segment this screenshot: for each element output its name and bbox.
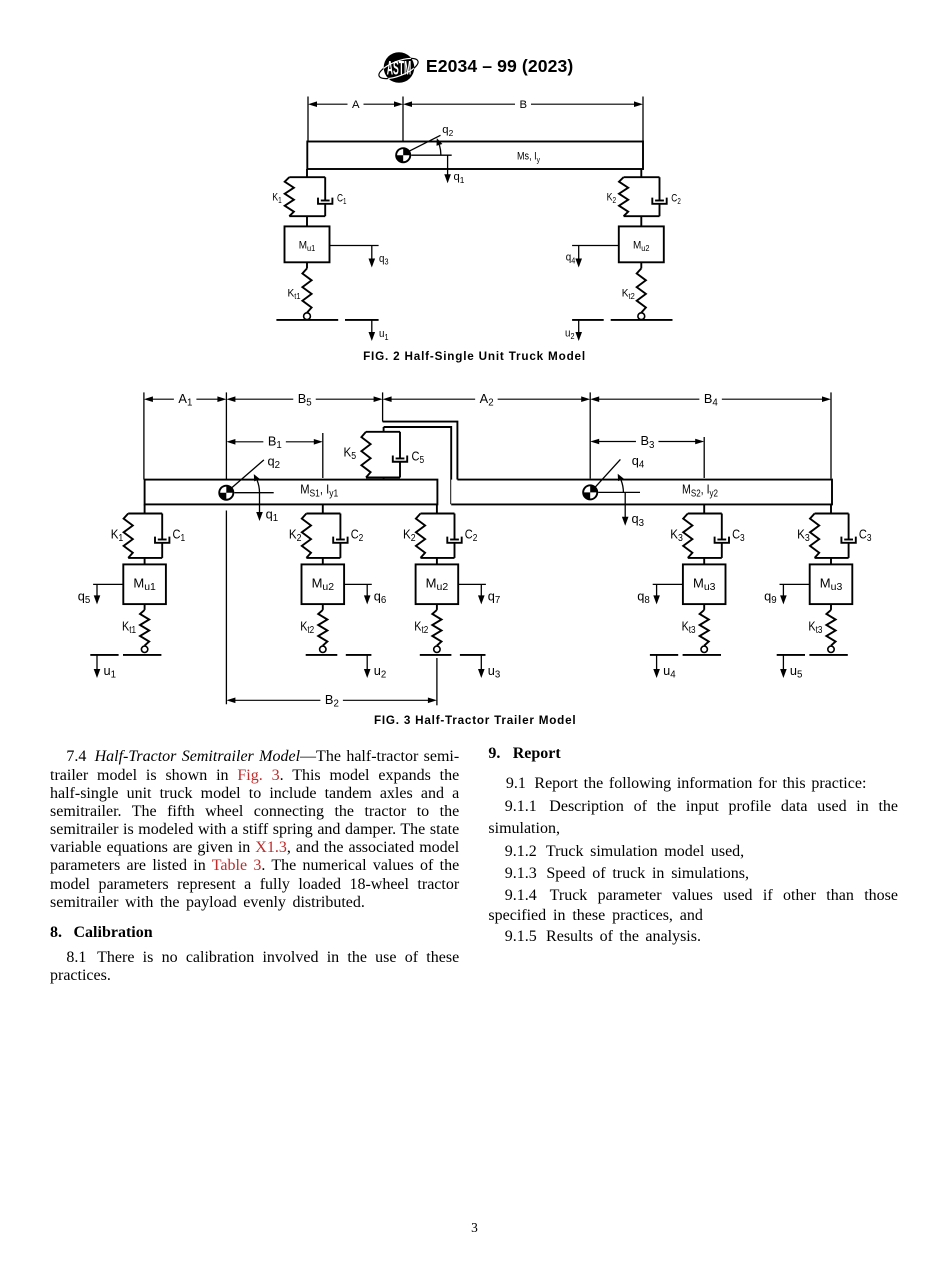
FIG2: dimension tick at right axle xyxy=(642,97,644,142)
road input line and arrow u5 xyxy=(777,655,805,678)
FIG3: dimension tick at fifth wheel xyxy=(382,392,384,421)
unsprung mass Mu3 (axle 4) xyxy=(683,564,726,604)
unsprung mass Mu1 xyxy=(285,226,330,262)
svg-text:q4: q4 xyxy=(632,453,645,471)
trailer sprung mass beam MS2 xyxy=(451,480,832,505)
suspension bracket axle 5 xyxy=(815,514,849,558)
tire spring Kt3 (axle 4) xyxy=(700,610,709,646)
FIG2: beam label Ms, Iy xyxy=(517,151,541,165)
svg-text:u3: u3 xyxy=(488,663,501,681)
svg-text:u2: u2 xyxy=(374,663,387,681)
damper C2 (axle 3) xyxy=(447,514,461,558)
svg-text:C1: C1 xyxy=(173,526,186,544)
FIG2: dimension A xyxy=(308,99,403,111)
road input line and arrow u1 xyxy=(345,320,379,341)
svg-text:Kt1: Kt1 xyxy=(288,287,301,301)
road input line and arrow u2 xyxy=(346,655,372,678)
trailer center of gravity symbol xyxy=(582,484,598,500)
svg-text:C3: C3 xyxy=(859,526,872,544)
spring K5 xyxy=(361,432,370,478)
spring label K3 xyxy=(797,526,810,544)
damper label C5 xyxy=(412,449,425,467)
displacement arrow q5 xyxy=(93,584,123,604)
svg-text:u1: u1 xyxy=(379,328,389,342)
tractor pitch q2 and bounce q1 arrows xyxy=(228,453,280,523)
unsprung mass Mu3 (axle 5) xyxy=(810,564,853,604)
svg-text:A2: A2 xyxy=(480,391,494,409)
FIG3: dimension B5 xyxy=(226,391,382,409)
displacement arrow q6 xyxy=(344,584,372,604)
damper label C3 xyxy=(859,526,872,544)
spring K3 (axle 5) xyxy=(810,514,819,558)
arrow label q9 xyxy=(764,588,777,606)
displacement arrow q3 xyxy=(330,246,379,268)
tire spring label Kt2 xyxy=(622,287,635,301)
wire: mass-to-tire-spring connector left axle xyxy=(306,262,308,268)
wire: beam-to-suspension connector axle 4 xyxy=(703,504,705,513)
mass label Mu2 xyxy=(633,239,650,253)
damper C3 (axle 5) xyxy=(841,514,855,558)
FIG2: pitch q2 and bounce q1 arrows at CG xyxy=(405,124,465,185)
arrow label q7 xyxy=(488,588,501,606)
mass label Mu1 xyxy=(299,239,316,253)
svg-text:Kt2: Kt2 xyxy=(300,619,314,637)
damper label C2 xyxy=(671,193,681,207)
svg-text:q7: q7 xyxy=(488,588,501,606)
displacement arrow q9 xyxy=(780,584,810,604)
beam label MS1, Iy1 xyxy=(300,482,338,500)
arrow label u1 xyxy=(104,663,117,681)
FIG. 2 caption xyxy=(0,351,950,363)
svg-text:K1: K1 xyxy=(272,191,282,205)
section heading 9. Report xyxy=(488,746,898,762)
section heading 8. Calibration xyxy=(50,925,459,941)
spring label K1 xyxy=(111,526,124,544)
trailer pitch q4 and bounce q3 arrows xyxy=(592,453,645,529)
arrow label q3 xyxy=(379,253,389,267)
svg-text:C2: C2 xyxy=(671,193,681,207)
FIG3: dimension tick at front axle / A1 xyxy=(143,392,145,479)
unsprung mass Mu2 xyxy=(619,226,664,262)
wire: link-to-fifth-wheel connector xyxy=(383,427,385,432)
suspension bracket axle 2 xyxy=(306,514,340,558)
fifth wheel link bar from trailer xyxy=(383,422,458,505)
wire: bracket-to-mass connector axle 1 xyxy=(144,558,146,565)
damper C1 (axle 1) xyxy=(155,514,169,558)
damper label C1 xyxy=(173,526,186,544)
mass label Mu2 xyxy=(426,576,449,594)
svg-text:Kt2: Kt2 xyxy=(414,619,428,637)
FIG3: dimension B2 tick at axle 3 xyxy=(436,658,438,705)
tire spring Kt2 (axle 2) xyxy=(318,610,327,646)
svg-text:C5: C5 xyxy=(412,449,425,467)
svg-text:C2: C2 xyxy=(351,526,364,544)
arrow label q5 xyxy=(78,588,91,606)
svg-text:K5: K5 xyxy=(344,445,357,463)
designation title E2034 - 99 (2023) xyxy=(426,58,573,76)
spring label K2 xyxy=(403,526,416,544)
svg-text:u4: u4 xyxy=(663,663,676,681)
FIG3: dimension B2 xyxy=(226,692,437,710)
svg-text:Kt3: Kt3 xyxy=(682,619,696,637)
svg-text:q2: q2 xyxy=(442,124,453,138)
spring label K2 xyxy=(289,526,302,544)
tractor center of gravity symbol xyxy=(218,485,234,501)
mass label Mu1 xyxy=(133,576,156,594)
arrow label u3 xyxy=(488,663,501,681)
suspension bracket axle 1 xyxy=(128,514,162,558)
ground line axle 3 xyxy=(420,654,452,656)
FIG3: dimension B3 tick at axle 4 xyxy=(703,437,705,478)
svg-text:B1: B1 xyxy=(268,434,282,452)
svg-text:Kt1: Kt1 xyxy=(122,619,136,637)
ground line axle 1 xyxy=(123,654,161,656)
road input line and arrow u1 xyxy=(90,655,118,678)
FIG2: dimension tick at CG xyxy=(402,97,404,142)
left column body text xyxy=(50,749,459,765)
mass label Mu3 xyxy=(693,576,716,594)
FIG3: dimension B3 xyxy=(590,433,704,451)
svg-text:q8: q8 xyxy=(637,588,650,606)
svg-text:u1: u1 xyxy=(104,663,117,681)
tire spring Kt1 (axle 1) xyxy=(140,610,149,646)
damper C2 (axle 2) xyxy=(333,514,347,558)
FIG2: dimension tick at left axle xyxy=(307,97,309,142)
svg-text:C3: C3 xyxy=(732,526,745,544)
FIG2: sprung mass beam Ms,Iy xyxy=(307,142,643,170)
svg-text:K2: K2 xyxy=(607,191,617,205)
wire: mass-to-tire-spring connector axle 2 xyxy=(322,604,324,610)
svg-text:A: A xyxy=(352,99,360,111)
suspension bracket left axle xyxy=(289,177,325,216)
ASTM logo xyxy=(370,43,430,93)
spring label K3 xyxy=(670,526,683,544)
tire spring Kt2 xyxy=(637,268,646,312)
page number xyxy=(0,1221,949,1234)
damper C5 xyxy=(393,432,407,478)
damper label C2 xyxy=(465,526,478,544)
wire: mass-to-tire-spring connector axle 5 xyxy=(830,604,832,610)
displacement arrow q8 xyxy=(653,584,683,604)
damper label C3 xyxy=(732,526,745,544)
FIG3: dimension B1 xyxy=(226,434,322,452)
displacement arrow q7 xyxy=(458,584,486,604)
unsprung mass Mu2 (axle 2) xyxy=(302,564,345,604)
svg-text:q1: q1 xyxy=(266,506,279,524)
svg-text:u2: u2 xyxy=(565,328,575,342)
beam label MS2, Iy2 xyxy=(682,482,718,500)
wire: beam-to-suspension connector axle 2 xyxy=(322,504,324,513)
svg-text:B2: B2 xyxy=(325,692,339,710)
mass label Mu2 xyxy=(312,576,335,594)
tire spring label Kt2 xyxy=(414,619,428,637)
svg-text:q3: q3 xyxy=(632,511,645,529)
wheel contact point left axle xyxy=(304,313,311,320)
wire: mass-to-tire-spring connector axle 4 xyxy=(703,604,705,610)
ground line axle 2 xyxy=(306,654,338,656)
damper C2 xyxy=(652,177,666,216)
svg-text:Kt3: Kt3 xyxy=(808,619,822,637)
svg-text:q4: q4 xyxy=(566,252,576,266)
svg-text:q5: q5 xyxy=(78,588,91,606)
arrow label u1 xyxy=(379,328,389,342)
FIG3: dimension B2 long tick at tractor CG xyxy=(225,511,227,705)
svg-text:K3: K3 xyxy=(797,526,810,544)
tractor sprung mass beam MS1 xyxy=(145,480,438,505)
svg-text:q2: q2 xyxy=(268,453,281,471)
road input line and arrow u2 xyxy=(572,320,604,341)
arrow label q8 xyxy=(637,588,650,606)
arrow label u2 xyxy=(374,663,387,681)
svg-text:Kt2: Kt2 xyxy=(622,287,635,301)
unsprung mass Mu1 (axle 1) xyxy=(123,564,166,604)
spring label K5 xyxy=(344,445,357,463)
ground line left axle xyxy=(276,319,338,321)
svg-text:B: B xyxy=(520,99,528,111)
wheel contact point axle 5 xyxy=(828,646,834,652)
wire: bracket-to-mass connector left axle xyxy=(306,216,308,226)
arrow label u4 xyxy=(663,663,676,681)
road input line and arrow u4 xyxy=(650,655,678,678)
wheel contact point axle 2 xyxy=(320,646,326,652)
arrow label q4 xyxy=(566,252,576,266)
wire: mass-to-tire-spring connector axle 1 xyxy=(144,604,146,610)
damper C1 xyxy=(318,177,332,216)
wheel contact point axle 3 xyxy=(434,646,440,652)
wire: mass-to-tire-spring connector axle 3 xyxy=(436,604,438,610)
damper C3 (axle 4) xyxy=(715,514,729,558)
svg-text:K3: K3 xyxy=(670,526,683,544)
tire spring label Kt2 xyxy=(300,619,314,637)
FIG2: dimension B xyxy=(403,99,643,111)
wire: bracket-to-mass connector axle 3 xyxy=(436,558,438,565)
wire: beam-to-suspension connector left axle xyxy=(306,169,308,177)
wheel contact point axle 4 xyxy=(701,646,707,652)
wire: beam-to-suspension connector axle 5 xyxy=(830,504,832,513)
FIG. 3 caption xyxy=(0,715,950,727)
suspension bracket axle 3 xyxy=(421,514,455,558)
tire spring label Kt3 xyxy=(682,619,696,637)
arrow label u5 xyxy=(790,663,803,681)
svg-text:q9: q9 xyxy=(764,588,777,606)
svg-text:C1: C1 xyxy=(337,193,347,207)
suspension bracket axle 4 xyxy=(688,514,722,558)
svg-text:K1: K1 xyxy=(111,526,124,544)
unsprung mass Mu2 (axle 3) xyxy=(416,564,459,604)
tire spring label Kt1 xyxy=(288,287,301,301)
spring K3 (axle 4) xyxy=(683,514,692,558)
spring K1 (axle 1) xyxy=(124,514,133,558)
tire spring Kt1 xyxy=(302,268,311,312)
svg-text:K2: K2 xyxy=(403,526,416,544)
displacement arrow q4 xyxy=(572,246,619,268)
arrow label u2 xyxy=(565,328,575,342)
FIG3: dimension A2 xyxy=(383,391,591,409)
wire: beam-to-suspension connector axle 1 xyxy=(144,504,146,513)
road input line and arrow u3 xyxy=(460,655,486,678)
spring K1 xyxy=(285,177,294,216)
suspension bracket right axle xyxy=(624,177,660,216)
FIG3: dimension B4 xyxy=(590,391,831,409)
damper label C1 xyxy=(337,193,347,207)
wheel contact point right axle xyxy=(638,313,645,320)
svg-text:B4: B4 xyxy=(704,391,719,409)
tire spring label Kt3 xyxy=(808,619,822,637)
wire: beam-to-suspension connector axle 3 xyxy=(436,504,438,513)
wire: bracket-to-mass connector right axle xyxy=(640,216,642,226)
svg-text:q3: q3 xyxy=(379,253,389,267)
wire: bracket-to-mass connector axle 5 xyxy=(830,558,832,565)
FIG3: dimension B1 tick at axle 2 xyxy=(322,433,324,478)
spring label K2 xyxy=(607,191,617,205)
svg-text:B5: B5 xyxy=(298,391,312,409)
FIG3: dimension tick at trailer CG xyxy=(589,392,591,478)
spring K2 (axle 2) xyxy=(302,514,311,558)
FIG3: dimension tick at tractor CG xyxy=(225,392,227,479)
tire spring Kt3 (axle 5) xyxy=(826,610,835,646)
FIG2: center of gravity symbol xyxy=(395,147,411,163)
svg-text:C2: C2 xyxy=(465,526,478,544)
FIG3: dimension tick at last axle xyxy=(830,392,832,478)
ground line axle 5 xyxy=(809,654,847,656)
svg-text:q1: q1 xyxy=(454,171,465,185)
wire: beam-to-suspension connector right axle xyxy=(640,169,642,177)
svg-text:u5: u5 xyxy=(790,663,803,681)
tire spring label Kt1 xyxy=(122,619,136,637)
fifth wheel bracket xyxy=(366,432,400,478)
ground line axle 4 xyxy=(683,654,721,656)
wheel contact point axle 1 xyxy=(141,646,147,652)
wire: bracket-to-mass connector axle 2 xyxy=(322,558,324,565)
mass label Mu3 xyxy=(820,576,843,594)
svg-text:A1: A1 xyxy=(178,391,192,409)
FIG3: dimension A1 xyxy=(144,391,227,409)
damper label C2 xyxy=(351,526,364,544)
arrow label q6 xyxy=(374,588,387,606)
spring K2 (axle 3) xyxy=(416,514,425,558)
svg-text:B3: B3 xyxy=(640,433,654,451)
wire: mass-to-tire-spring connector right axle xyxy=(640,262,642,268)
svg-text:K2: K2 xyxy=(289,526,302,544)
spring label K1 xyxy=(272,191,282,205)
wire: fifth-wheel-to-tractor-beam connector xyxy=(383,478,385,480)
wire: bracket-to-mass connector axle 4 xyxy=(703,558,705,565)
svg-text:q6: q6 xyxy=(374,588,387,606)
ground line right axle xyxy=(611,319,673,321)
tire spring Kt2 (axle 3) xyxy=(432,610,441,646)
spring K2 xyxy=(619,177,628,216)
